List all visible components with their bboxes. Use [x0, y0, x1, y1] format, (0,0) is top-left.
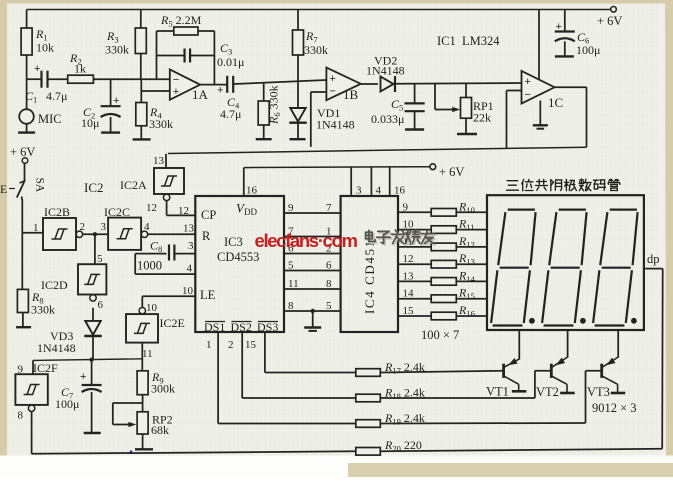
blue scan speck [130, 450, 133, 453]
label 100x7 [421, 328, 459, 342]
svg-text:dp: dp [647, 252, 660, 266]
resistor R18 [356, 386, 535, 402]
resistor R14 [431, 268, 475, 285]
terminal +6V switch supply [10, 145, 35, 163]
svg-text:+ 6V: + 6V [10, 145, 35, 159]
svg-text:+: + [525, 76, 531, 88]
schmitt gate IC2F [15, 360, 58, 421]
ground 1C [533, 101, 548, 129]
svg-text:16: 16 [246, 185, 258, 197]
svg-text:5: 5 [97, 253, 103, 265]
svg-text:−: − [329, 86, 335, 98]
svg-text:R: R [202, 229, 211, 243]
svg-text:13: 13 [153, 155, 165, 167]
resistor R2 [68, 51, 94, 83]
svg-text:−: − [173, 74, 179, 86]
svg-text:LE: LE [200, 288, 216, 302]
svg-text:100μ: 100μ [55, 397, 79, 411]
svg-text:1000: 1000 [137, 259, 162, 273]
svg-text:9: 9 [18, 364, 24, 376]
transistor VT1 [486, 358, 526, 398]
svg-text:330k: 330k [304, 43, 328, 57]
svg-text:+ 6V: + 6V [439, 165, 464, 179]
terminal +6V top right [597, 7, 622, 29]
svg-text:330k: 330k [105, 43, 129, 57]
svg-text:IC2D: IC2D [41, 278, 68, 292]
svg-text:16: 16 [394, 185, 406, 197]
watermark elecfans.com [255, 230, 358, 251]
svg-text:10μ: 10μ [81, 116, 99, 130]
capacitor C5 [371, 84, 425, 130]
resistor R19 [356, 411, 586, 427]
svg-text:R18 2.4k: R18 2.4k [384, 386, 425, 402]
svg-text:1N4148: 1N4148 [316, 118, 355, 132]
svg-text:IC2F: IC2F [33, 361, 58, 375]
svg-text:68k: 68k [151, 423, 169, 437]
ground IC3-IC4 common [304, 309, 321, 331]
wire display cathode 3 [617, 330, 619, 358]
svg-text:8: 8 [288, 300, 294, 312]
svg-text:CD4553: CD4553 [217, 250, 259, 264]
svg-text:IC2A: IC2A [120, 178, 147, 192]
resistor R7 [293, 10, 329, 82]
wire DS1 pin1 to R19 [206, 332, 218, 424]
svg-text:+: + [34, 63, 40, 75]
svg-text:4.7μ: 4.7μ [220, 107, 241, 121]
microphone MIC [18, 79, 62, 132]
schmitt gate IC2D [41, 264, 106, 311]
svg-text:2: 2 [228, 339, 234, 351]
svg-text:CP: CP [201, 208, 216, 222]
wire DS1 row to R19 [218, 423, 356, 425]
wire IC3 pin16 to +6V [244, 168, 258, 197]
schmitt gate IC2B [33, 205, 85, 250]
wire DS2 pin2 to R18 [228, 332, 242, 398]
wire 1C output [555, 87, 587, 147]
display three-digit common-cathode box [487, 195, 644, 330]
svg-text:+: + [556, 21, 562, 33]
wire C4 to 1B non-inverting input [234, 80, 327, 84]
resistor R5 [160, 13, 214, 35]
diode VD3 [37, 308, 102, 360]
svg-text:R6 330k: R6 330k [267, 85, 283, 125]
wire IC2E input node [141, 343, 143, 371]
resistor R13 [431, 251, 475, 268]
capacitor C4 [217, 76, 241, 121]
svg-text:10: 10 [182, 285, 194, 297]
svg-text:9012 × 3: 9012 × 3 [592, 401, 637, 415]
wire DS2 row to R18 [242, 397, 356, 399]
svg-text:11: 11 [142, 348, 153, 360]
svg-text:VT3: VT3 [587, 385, 610, 399]
watermark Chinese elecfans [366, 230, 436, 245]
wire IC2F output to R20 row [31, 412, 33, 454]
wire DS3 pin15 to R17 [245, 332, 265, 373]
wire R2 to op-amp 1A inverting input [93, 78, 169, 80]
wire VD2 to 1C non-inverting input [395, 82, 522, 85]
resistor R9 [137, 370, 175, 396]
svg-text:3: 3 [356, 185, 362, 197]
capacitor C7 [55, 360, 102, 433]
svg-text:IC3: IC3 [224, 235, 243, 249]
svg-text:IC1 LM324: IC1 LM324 [437, 34, 500, 48]
wire +6V top rail [27, 9, 613, 11]
wire IC2A output to IC3 CP [167, 201, 196, 217]
svg-text:4: 4 [376, 185, 382, 197]
svg-text:4.7μ: 4.7μ [46, 89, 67, 103]
svg-text:13: 13 [403, 270, 415, 282]
svg-text:5: 5 [326, 300, 332, 312]
resistor R16 [431, 303, 475, 320]
capacitor C6 [555, 10, 601, 58]
resistor R4 [133, 79, 173, 139]
svg-text:1: 1 [33, 222, 39, 234]
wire DS3 row to R17 [265, 372, 356, 374]
transistor VT2 [535, 357, 575, 399]
label IC1 LM324 [437, 34, 500, 48]
wires IC3 to IC4 data lines [284, 202, 341, 312]
resistor R8 [16, 289, 55, 327]
potentiometer RP2 [113, 403, 173, 437]
svg-text:12: 12 [146, 202, 157, 214]
svg-text:+ 6V: + 6V [597, 14, 622, 28]
capacitor C3 [157, 41, 245, 69]
svg-text:IC2C: IC2C [104, 205, 130, 219]
svg-text:12: 12 [178, 205, 189, 217]
svg-text:8: 8 [18, 410, 24, 422]
capacitor C2 [81, 79, 121, 132]
svg-text:3: 3 [188, 240, 194, 252]
svg-text:1k: 1k [74, 62, 86, 76]
schmitt gate IC2C [101, 205, 151, 250]
svg-text:8: 8 [326, 278, 332, 290]
op-amp 1B [326, 68, 360, 103]
svg-text:7: 7 [326, 202, 332, 214]
svg-text:3: 3 [101, 221, 107, 233]
wire +6V mid rail [244, 166, 430, 169]
svg-text:1C: 1C [548, 95, 563, 110]
wire feedback loop left [157, 31, 174, 79]
svg-text:IC2: IC2 [84, 180, 104, 195]
svg-text:R5 2.2M: R5 2.2M [160, 13, 202, 29]
wire IC2F to R20 [32, 451, 356, 454]
resistor R1 [21, 10, 54, 80]
svg-text:+: + [80, 371, 86, 383]
svg-text:R17 2.4k: R17 2.4k [384, 360, 425, 376]
wire display cathode 2 [567, 330, 569, 358]
svg-text:4: 4 [187, 263, 193, 275]
wire SA to IC2B and R8 [22, 199, 43, 289]
svg-text:1N4148: 1N4148 [37, 341, 76, 355]
svg-text:MIC: MIC [38, 112, 62, 126]
label dp [647, 252, 660, 266]
wire junction VD3 node [33, 358, 142, 362]
terminal +6V mid [430, 164, 465, 179]
resistor R12 [431, 234, 475, 251]
svg-text:0.033μ: 0.033μ [371, 112, 404, 126]
svg-text:+: + [113, 95, 119, 107]
resistor R6 [256, 83, 282, 139]
svg-text:10k: 10k [36, 41, 54, 55]
switch SA [0, 163, 46, 199]
svg-text:10: 10 [403, 219, 415, 231]
IC U4 CD4511 box [341, 196, 398, 332]
label IC2 [84, 180, 104, 195]
display digit outlines and decimal points [491, 210, 637, 326]
wire display cathode 1 [518, 330, 520, 360]
svg-text:E: E [0, 182, 7, 196]
svg-text:4: 4 [144, 221, 150, 233]
svg-text:22k: 22k [473, 111, 491, 125]
svg-text:1B: 1B [343, 87, 359, 102]
svg-text:R19 2.4k: R19 2.4k [384, 411, 425, 427]
transistor VT3 [586, 357, 637, 423]
wire IC2B to IC2C [83, 232, 108, 236]
resistor R10 [431, 199, 475, 216]
wires IC4 outputs to segment resistors [398, 201, 487, 317]
wire feedback loop right [213, 31, 215, 85]
wire IC2C to IC3 R input [148, 223, 196, 235]
svg-text:2: 2 [80, 221, 86, 233]
svg-text:9: 9 [288, 202, 294, 214]
svg-text:6: 6 [98, 299, 104, 311]
IC U3 CD4553 box [195, 196, 284, 334]
resistor R17 [356, 360, 504, 376]
svg-text:330k: 330k [149, 117, 173, 131]
svg-text:330k: 330k [31, 303, 55, 317]
wire 1A output [200, 84, 227, 86]
label title Chinese three-digit common-cathode display [507, 179, 620, 191]
resistor R11 [431, 217, 474, 234]
svg-text:100 × 7: 100 × 7 [421, 328, 459, 342]
svg-text:15: 15 [245, 339, 257, 351]
wire 1B output [361, 83, 378, 85]
wire 1C output to 1B inverting input and IC2A [168, 92, 587, 154]
diode VD2 [366, 54, 405, 93]
op-amp 1A [170, 70, 209, 103]
svg-text:13: 13 [183, 223, 195, 235]
svg-text:−: − [525, 89, 531, 101]
svg-text:R20 220: R20 220 [384, 438, 422, 454]
svg-text:+: + [173, 86, 179, 98]
svg-text:IC2E: IC2E [160, 316, 185, 330]
wire 1C inverting input [507, 91, 522, 149]
svg-text:+: + [217, 85, 223, 97]
svg-text:300k: 300k [151, 382, 175, 396]
svg-text:15: 15 [403, 305, 415, 317]
capacitor C8 [135, 239, 195, 275]
schmitt gate IC2A [120, 155, 184, 214]
op-amp 1C [522, 10, 564, 111]
svg-text:+: + [329, 73, 335, 85]
capacitor C1 [25, 63, 68, 105]
svg-text:1N4148: 1N4148 [366, 64, 405, 78]
wire IC2B out to IC2D [95, 234, 103, 265]
svg-text:IC2B: IC2B [44, 205, 70, 219]
resistor R15 [431, 286, 475, 303]
svg-text:SA: SA [34, 178, 46, 193]
svg-text:14: 14 [403, 288, 415, 300]
wire dp to bottom-right bus [644, 269, 663, 449]
wires IC4 top pins 3 4 16 [351, 167, 405, 196]
svg-text:1A: 1A [192, 87, 209, 102]
svg-text:6: 6 [326, 260, 332, 272]
svg-text:10: 10 [146, 302, 158, 314]
svg-text:11: 11 [288, 278, 299, 290]
svg-text:1: 1 [206, 339, 212, 351]
svg-text:VT1: VT1 [486, 385, 509, 399]
wire 1A non-inverting input stub [141, 90, 170, 92]
svg-text:100μ: 100μ [576, 43, 600, 57]
wire IC2A input from 1C [165, 154, 167, 168]
svg-text:VT2: VT2 [536, 385, 559, 399]
svg-text:elecfans·com: elecfans·com [255, 230, 358, 251]
wire IC2E output to IC3 LE [142, 285, 195, 307]
wire R9 to RP2 [142, 395, 144, 412]
diode VD1 [289, 82, 354, 140]
potentiometer RP1 [435, 83, 494, 134]
svg-text:0.01μ: 0.01μ [217, 55, 244, 69]
schmitt gate IC2E [126, 302, 185, 360]
svg-text:12: 12 [403, 253, 414, 265]
resistor R20 [356, 438, 662, 455]
svg-text:5: 5 [288, 260, 294, 272]
svg-text:9: 9 [403, 201, 409, 213]
ground RP2 [135, 434, 153, 449]
resistor R3 [105, 10, 146, 80]
